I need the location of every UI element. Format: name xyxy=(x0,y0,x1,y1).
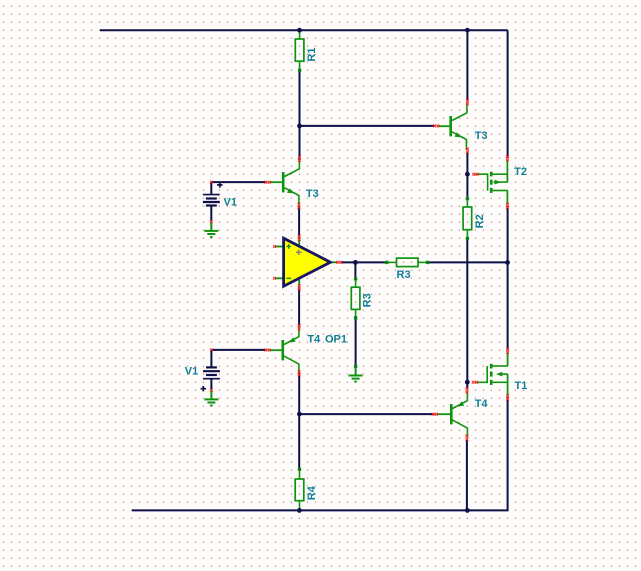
svg-text:T2: T2 xyxy=(514,166,527,178)
svg-text:R3: R3 xyxy=(362,293,374,307)
svg-text:R1: R1 xyxy=(306,48,318,62)
svg-text:V1: V1 xyxy=(224,196,237,208)
svg-text:OP1: OP1 xyxy=(325,334,347,346)
svg-text:R3: R3 xyxy=(397,269,411,281)
svg-text:T3: T3 xyxy=(475,130,488,142)
svg-text:T4: T4 xyxy=(307,334,321,346)
svg-text:T3: T3 xyxy=(306,188,319,200)
svg-text:R2: R2 xyxy=(474,214,486,228)
svg-text:V1: V1 xyxy=(185,365,198,377)
svg-text:R4: R4 xyxy=(306,485,318,500)
svg-text:T1: T1 xyxy=(515,380,528,392)
svg-text:T4: T4 xyxy=(475,398,489,410)
